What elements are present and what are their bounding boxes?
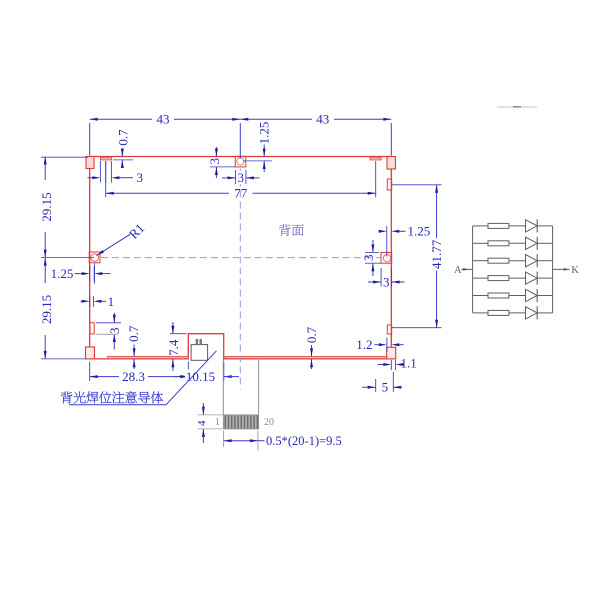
dim 1.1 [378,364,384,366]
top copper pad right [370,157,381,160]
svg-text:28.3: 28.3 [122,369,145,384]
dim 43 right [240,118,312,120]
connector body [223,415,258,429]
svg-text:0.7: 0.7 [116,129,131,146]
svg-text:1.1: 1.1 [401,356,417,371]
dim 3 top horizontal [235,170,237,184]
svg-text:43: 43 [157,112,170,127]
dim 28.3 [89,362,91,382]
branch 1: resistor R1 [473,225,488,227]
faint collapsed line [497,106,537,108]
svg-text:0.7: 0.7 [304,326,319,343]
dim 1 left [81,300,82,302]
bottom-left corner notch [86,347,95,359]
dim 29.15 lower [44,258,46,283]
svg-text:43: 43 [316,112,329,127]
note text: backlight solder pads, mind the conductor [61,392,72,404]
svg-text:0.7: 0.7 [126,325,141,342]
svg-text:1: 1 [108,294,115,309]
svg-text:7.4: 7.4 [166,339,181,356]
pad top center (square + circle) [235,156,246,167]
dim 29.15 upper [44,157,46,181]
branch 1: LED D1 [526,220,538,232]
svg-text:A: A [454,265,462,276]
PCB outline (back side) [90,157,392,359]
dim 77 [106,192,229,194]
branch 4: LED D4 [526,272,538,284]
top-left corner notch [86,157,94,169]
svg-text:20: 20 [264,417,274,428]
svg-text:29.15: 29.15 [39,295,54,324]
svg-text:0.5*(20-1)=9.5: 0.5*(20-1)=9.5 [266,434,342,448]
dim 3 right vertical [372,240,374,253]
svg-text:29.15: 29.15 [39,192,54,221]
branch 2: LED D2 [526,237,538,249]
svg-text:1.25: 1.25 [408,224,431,239]
backlight solder component body [191,345,208,361]
dim 43 left [90,118,152,120]
top copper pad left [100,157,111,160]
branch 6: resistor R6 [473,312,488,314]
vertical centerline [239,169,241,390]
right bus [552,226,554,313]
svg-text:1.25: 1.25 [51,266,74,281]
label: back side [279,224,290,236]
component pins hatched [196,339,198,345]
dim 3 right horizontal [380,268,382,287]
svg-text:3: 3 [383,275,390,290]
dim 41.77 [392,184,442,186]
svg-text:5: 5 [382,380,389,395]
svg-text:3: 3 [238,170,245,185]
dim 4 connector height [198,414,223,416]
svg-text:K: K [571,265,579,276]
branch 3: resistor R3 [473,260,488,262]
FPC tail right edge [258,359,260,415]
svg-text:4: 4 [196,420,208,426]
dim 5 [375,379,377,392]
dim 10.15 [175,376,189,378]
FPC tail left edge [222,359,224,415]
pad right (square + circle) [381,253,392,264]
svg-text:3: 3 [137,170,144,185]
branch 4: resistor R4 [473,277,488,279]
connector pins [224,415,226,428]
dim 7.4 [172,322,174,334]
dim 3 top-left pad [99,161,101,183]
svg-text:77: 77 [234,186,248,201]
svg-text:3: 3 [207,158,222,165]
bottom-right corner notch [387,347,396,359]
svg-text:3: 3 [107,327,122,334]
branch 2: resistor R2 [473,242,488,244]
R1 label + leader [97,234,131,255]
svg-text:1: 1 [215,417,220,428]
right edge pad upper [387,179,391,190]
note leader line [69,404,166,406]
branch 5: resistor R5 [473,295,488,297]
svg-text:3: 3 [361,255,376,262]
left bus [472,226,474,313]
bottom copper strip right [225,356,387,358]
dim 0.5*(20-1)=9.5 [223,431,225,448]
dim 3 left vertical [113,313,115,323]
branch 3: LED D3 [526,255,538,267]
bottom copper strip left [108,356,189,358]
left edge pad [90,323,94,334]
svg-text:41.77: 41.77 [429,239,444,269]
svg-text:10.15: 10.15 [186,369,215,384]
branch 5: LED D5 [526,289,538,301]
pad R1 left (square + circle) [89,252,100,263]
right edge pad lower [387,325,391,334]
svg-text:1.25: 1.25 [257,122,272,145]
cathode terminal K [553,268,570,270]
top-right corner notch [387,157,396,170]
svg-text:1.2: 1.2 [356,337,372,352]
branch 6: LED D6 [526,307,538,319]
dim 1.25 right [379,230,380,232]
horizontal centerline [101,257,381,259]
